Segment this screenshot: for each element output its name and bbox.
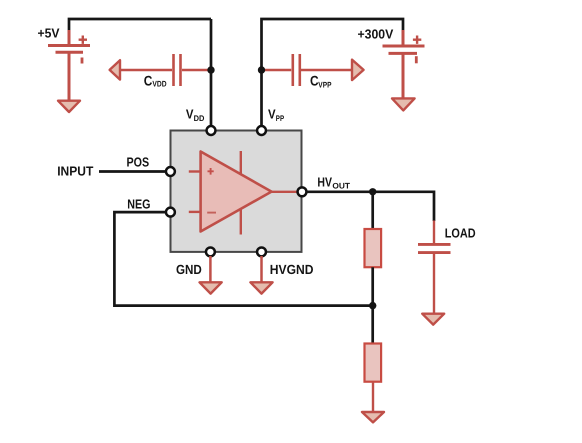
- wire VDD column down to VDD pin: [210, 19, 213, 127]
- label POS: [127, 155, 150, 170]
- label INPUT: [57, 164, 93, 179]
- ground below LOAD: [422, 314, 444, 325]
- ground for +5V battery: [58, 101, 80, 112]
- svg-text:OUT: OUT: [332, 182, 350, 191]
- label +300V: [358, 27, 394, 42]
- capacitor C_VDD: [121, 54, 212, 86]
- node junction VDD/C_VDD: [207, 66, 214, 73]
- svg-text:+300V: +300V: [358, 27, 394, 42]
- svg-text:GND: GND: [176, 262, 202, 277]
- svg-text:C: C: [144, 72, 153, 88]
- label GND: [176, 262, 202, 277]
- label V_DD: [186, 106, 205, 123]
- pin HVOUT: [298, 187, 307, 196]
- svg-text:V: V: [186, 106, 194, 121]
- arrow terminal left of C_VDD: [110, 60, 120, 79]
- capacitor LOAD: [418, 221, 451, 314]
- label LOAD: [445, 225, 476, 240]
- ground GND: [200, 282, 222, 293]
- svg-text:POS: POS: [127, 155, 150, 170]
- svg-text:HV: HV: [317, 175, 332, 190]
- node junction VPP/C_VPP: [258, 66, 265, 73]
- wire INPUT to POS pin: [99, 170, 166, 173]
- wire VPP column up and right to +300V battery: [262, 19, 404, 127]
- svg-text:V: V: [268, 106, 276, 121]
- battery V1 +5V: [48, 30, 90, 101]
- wire divider upper: [371, 192, 374, 230]
- ground HVGND: [250, 282, 272, 293]
- pin VPP: [257, 126, 266, 135]
- svg-text:NEG: NEG: [127, 197, 150, 212]
- label HVGND: [270, 262, 314, 277]
- svg-text:+5V: +5V: [38, 26, 60, 41]
- node junction feedback/divider: [369, 302, 376, 309]
- svg-text:HVGND: HVGND: [270, 262, 314, 277]
- label +5V: [38, 26, 60, 41]
- wire NEG feedback loop: [114, 212, 372, 306]
- label HV_OUT: [317, 175, 350, 191]
- wire GND pin to ground: [209, 256, 212, 283]
- resistor R2: [365, 344, 382, 382]
- capacitor C_VPP: [262, 54, 352, 86]
- wire R1 to feedback node: [371, 267, 374, 344]
- pin NEG: [166, 208, 175, 217]
- wire top-left from +5V battery to VDD node: [69, 19, 211, 34]
- pin POS: [166, 167, 175, 176]
- svg-text:PP: PP: [276, 114, 285, 123]
- label C_VPP: [310, 73, 332, 90]
- label V_PP: [268, 106, 285, 123]
- svg-text:VPP: VPP: [318, 81, 332, 90]
- label C_VDD: [144, 72, 167, 88]
- pin HVGND: [257, 247, 266, 256]
- ground below R2: [362, 412, 384, 422]
- svg-text:LOAD: LOAD: [445, 225, 476, 240]
- wire HVGND pin to ground: [260, 256, 263, 283]
- wire HVOUT to load branch: [306, 192, 434, 221]
- svg-text:DD: DD: [194, 114, 205, 123]
- svg-text:INPUT: INPUT: [57, 164, 93, 179]
- wire R2 to ground: [372, 382, 374, 412]
- svg-text:C: C: [310, 73, 319, 89]
- battery V2 +300V: [383, 30, 425, 99]
- resistor R1: [365, 229, 382, 267]
- arrow terminal right of C_VPP: [352, 60, 364, 80]
- svg-text:VDD: VDD: [152, 79, 166, 88]
- pin VDD: [207, 126, 216, 135]
- label NEG: [127, 197, 150, 212]
- node junction HVOUT/divider: [369, 188, 376, 195]
- op-amp U1 triangle: [189, 151, 297, 235]
- ground for +300V battery: [392, 98, 415, 110]
- op-amp package body U1: [171, 131, 302, 252]
- pin GND: [206, 247, 215, 256]
